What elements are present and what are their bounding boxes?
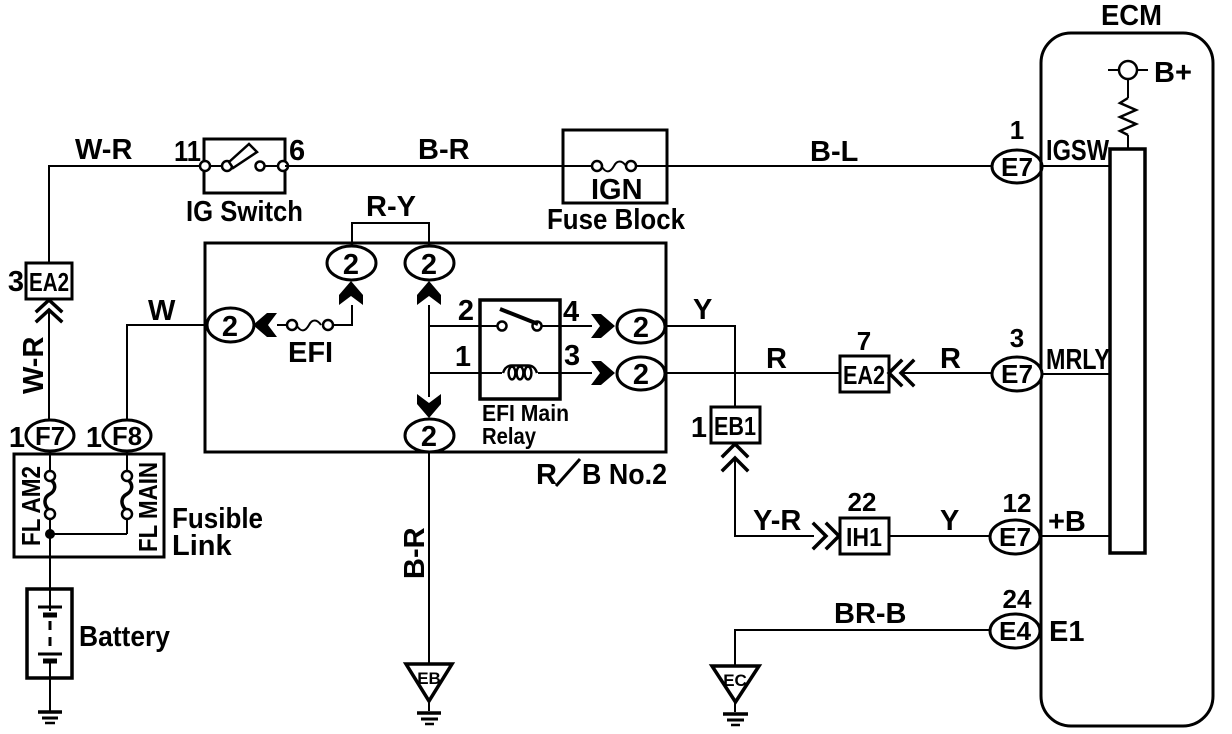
svg-text:R: R xyxy=(536,459,557,491)
label IGN xyxy=(591,174,643,206)
relay coil xyxy=(503,366,560,380)
svg-text:Y-R: Y-R xyxy=(753,505,801,537)
svg-text:3: 3 xyxy=(1010,323,1024,353)
svg-text:Y: Y xyxy=(693,294,712,326)
arrow up into top-left 2 xyxy=(339,281,363,305)
wire Y from right 2 upper to EB1 xyxy=(665,326,735,407)
svg-text:Fuse Block: Fuse Block xyxy=(547,204,686,236)
wire fuse to arrow xyxy=(277,324,287,326)
wire IGSW to ECM block xyxy=(1042,165,1110,167)
svg-text:R: R xyxy=(940,343,961,375)
label Fuse Block xyxy=(547,204,686,236)
arrows up into EA2 left xyxy=(37,300,61,321)
pin 3 EA2 left xyxy=(8,266,24,298)
EFI main relay box xyxy=(480,300,560,399)
relay pin 3 xyxy=(564,340,580,372)
pin 3 MRLY xyxy=(1010,323,1024,353)
label W-R xyxy=(75,134,132,166)
relay pin 4 xyxy=(563,296,579,328)
svg-text:IH1: IH1 xyxy=(846,522,882,552)
svg-text:4: 4 xyxy=(563,296,579,328)
label R right xyxy=(940,343,961,375)
wire to relay pin 2 xyxy=(429,325,498,327)
connector EA2 (left) xyxy=(26,263,72,299)
connector IH1 xyxy=(840,518,889,554)
label R left xyxy=(766,343,787,375)
relay switch contacts xyxy=(498,322,542,331)
connector 2 (right lower) xyxy=(617,357,665,391)
wire EFI fuse to top-left 2 xyxy=(333,305,352,325)
svg-text:1: 1 xyxy=(691,412,707,444)
svg-text:Link: Link xyxy=(172,530,232,562)
svg-text:EA2: EA2 xyxy=(29,267,69,297)
svg-text:B+: B+ xyxy=(1154,57,1192,89)
ECM internal block xyxy=(1110,149,1145,553)
arrow right into right 2 lower xyxy=(591,361,615,385)
svg-text:1: 1 xyxy=(9,422,25,454)
pin 12 xyxy=(1003,488,1032,518)
svg-text:3: 3 xyxy=(8,266,24,298)
svg-text:EC: EC xyxy=(723,671,747,690)
svg-text:B-R: B-R xyxy=(418,134,470,166)
label MRLY xyxy=(1046,344,1110,376)
wire +B to ECM block xyxy=(1040,535,1110,537)
svg-text:E7: E7 xyxy=(1001,359,1033,389)
connector EB1 xyxy=(711,407,760,443)
svg-text:ECM: ECM xyxy=(1101,0,1162,32)
svg-text:3: 3 xyxy=(564,340,580,372)
wire junction to battery xyxy=(50,533,127,535)
label R/B No.2 xyxy=(536,459,667,491)
wire B-R xyxy=(285,165,563,167)
wire battery to ground xyxy=(49,678,51,711)
connector 2 (top left) xyxy=(327,246,376,281)
svg-text:R: R xyxy=(766,343,787,375)
svg-text:E7: E7 xyxy=(999,522,1031,552)
svg-text:F7: F7 xyxy=(35,421,65,451)
wire relay pin 4 to arrow xyxy=(541,325,592,327)
junction node xyxy=(45,529,55,539)
label FL MAIN xyxy=(133,462,163,552)
label EFI Main Relay xyxy=(482,400,569,449)
label Y right xyxy=(940,505,959,537)
label IGSW xyxy=(1046,135,1109,167)
svg-text:12: 12 xyxy=(1003,488,1032,518)
label B-L xyxy=(810,136,858,168)
wire W-R from F7 up xyxy=(48,312,50,420)
fuse IGN xyxy=(563,161,667,171)
arrows left into EA2 xyxy=(889,361,913,385)
pin 1 IGSW xyxy=(1010,115,1024,145)
label Y-R xyxy=(753,505,801,537)
svg-text:B No.2: B No.2 xyxy=(582,459,667,491)
IG switch contacts xyxy=(200,161,288,171)
ground battery xyxy=(38,712,62,723)
svg-text:Relay: Relay xyxy=(482,423,536,449)
connector EA2 (right) xyxy=(840,356,889,392)
ground EB triangle xyxy=(406,664,452,701)
pin 7 EA2 xyxy=(857,326,871,356)
label Y xyxy=(693,294,712,326)
connector 2 (right upper) xyxy=(617,310,665,344)
svg-text:W-R: W-R xyxy=(75,134,132,166)
arrows up into EB1 xyxy=(723,444,747,470)
pin 1 F8 xyxy=(86,422,102,454)
svg-text:W-R: W-R xyxy=(18,337,50,394)
svg-text:FL AM2: FL AM2 xyxy=(16,466,46,546)
connector 2 (top right) xyxy=(405,246,454,281)
svg-text:EFI: EFI xyxy=(288,337,333,369)
svg-text:E1: E1 xyxy=(1049,616,1084,648)
svg-text:2: 2 xyxy=(421,249,437,281)
svg-text:EB1: EB1 xyxy=(714,411,756,441)
R/B No.2 box xyxy=(205,243,666,452)
svg-text:1: 1 xyxy=(455,341,471,373)
connector 2 (bottom) xyxy=(405,419,454,453)
svg-text:F8: F8 xyxy=(112,421,142,451)
svg-text:IGN: IGN xyxy=(591,174,643,206)
wire relay pin 3 to arrow xyxy=(560,372,592,374)
connector F8 xyxy=(103,420,151,451)
wire BR-B from EC to E4 xyxy=(735,630,990,666)
pin 11 xyxy=(174,136,201,168)
label W-R vertical xyxy=(18,337,50,394)
svg-text:E4: E4 xyxy=(999,616,1032,646)
arrows right into IH1 xyxy=(814,524,839,548)
fusible link box xyxy=(14,454,164,557)
svg-text:2: 2 xyxy=(633,359,649,391)
arrow left into left 2 xyxy=(253,313,277,337)
label B-R xyxy=(418,134,470,166)
svg-text:FL MAIN: FL MAIN xyxy=(133,462,163,552)
svg-text:MRLY: MRLY xyxy=(1046,344,1110,376)
wire W-R from EA2 up to IG switch xyxy=(49,166,204,263)
node B+ xyxy=(1108,61,1148,79)
svg-text:2: 2 xyxy=(421,421,437,453)
label B-R vertical xyxy=(399,527,431,579)
svg-text:2: 2 xyxy=(458,295,474,327)
ground EB stem and hatches xyxy=(417,701,441,724)
relay pin 1 xyxy=(455,341,471,373)
ground EC stem and hatches xyxy=(723,702,748,725)
pin 6 xyxy=(289,135,305,167)
label W xyxy=(148,295,176,327)
label +B xyxy=(1048,506,1086,538)
relay switch lever xyxy=(500,309,538,324)
svg-text:B-R: B-R xyxy=(399,527,431,579)
wire R-Y bridge xyxy=(352,223,429,247)
svg-text:Battery: Battery xyxy=(79,621,170,653)
svg-text:1: 1 xyxy=(86,422,102,454)
battery box xyxy=(27,589,72,678)
svg-text:EA2: EA2 xyxy=(843,360,885,390)
label R-Y xyxy=(366,191,416,223)
svg-text:W: W xyxy=(148,295,176,327)
connector E4 xyxy=(990,614,1040,648)
svg-text:R-Y: R-Y xyxy=(366,191,416,223)
connector F7 xyxy=(26,420,74,451)
connector E7 IGSW xyxy=(992,150,1042,183)
svg-text:Y: Y xyxy=(940,505,959,537)
fuse block box xyxy=(563,130,667,203)
svg-text:IGSW: IGSW xyxy=(1046,135,1109,167)
svg-text:2: 2 xyxy=(633,312,649,344)
label BR-B xyxy=(834,598,907,630)
svg-text:1: 1 xyxy=(1010,115,1024,145)
arrow down into bottom 2 xyxy=(417,394,441,418)
connector 2 (left edge) xyxy=(207,308,254,343)
wire to relay pin 1 / coil xyxy=(429,372,502,374)
wire R from right 2 lower to EA2 xyxy=(665,372,840,374)
label Fusible Link xyxy=(172,503,263,562)
svg-text:IG Switch: IG Switch xyxy=(186,196,303,228)
pin 22 IH1 xyxy=(848,487,877,517)
label ECM xyxy=(1101,0,1162,32)
relay pin 2 xyxy=(458,295,474,327)
wire R from E7 MRLY to EA2 xyxy=(902,372,992,374)
svg-text:6: 6 xyxy=(289,135,305,167)
svg-text:11: 11 xyxy=(174,136,201,168)
fuse EFI xyxy=(287,320,333,330)
fusible link FL MAIN xyxy=(122,451,132,534)
IG switch box xyxy=(204,139,285,193)
label FL AM2 xyxy=(16,466,46,546)
battery cells xyxy=(38,589,62,678)
ground EC triangle xyxy=(712,666,759,702)
wire to battery xyxy=(49,534,51,589)
svg-text:B-L: B-L xyxy=(810,136,858,168)
pin 1 EB1 xyxy=(691,412,707,444)
pin 1 F7 xyxy=(9,422,25,454)
svg-text:+B: +B xyxy=(1048,506,1086,538)
label E1 xyxy=(1049,616,1084,648)
svg-text:2: 2 xyxy=(343,249,359,281)
wire Y-R from EB1 down to IH1 xyxy=(735,459,814,536)
label IG Switch xyxy=(186,196,303,228)
fusible link FL AM2 xyxy=(45,451,55,534)
svg-text:7: 7 xyxy=(857,326,871,356)
resistor internal xyxy=(1120,98,1136,135)
arrow up into top-right 2 xyxy=(417,281,441,305)
pin 24 xyxy=(1003,584,1032,614)
svg-text:24: 24 xyxy=(1003,584,1032,614)
wire B-R to ground EB xyxy=(428,452,430,664)
wire MRLY to ECM block xyxy=(1042,373,1110,375)
wire Y from IH1 to E7 xyxy=(889,535,990,537)
svg-text:BR-B: BR-B xyxy=(834,598,907,630)
label B+ xyxy=(1154,57,1192,89)
arrow right into right 2 upper xyxy=(591,314,615,338)
connector E7 +B xyxy=(990,520,1040,554)
wire W from F8 to left 2 xyxy=(127,325,207,420)
label EFI xyxy=(288,337,333,369)
svg-text:2: 2 xyxy=(222,311,238,343)
IG switch lever xyxy=(229,144,257,168)
wire B+ to resistor xyxy=(1127,79,1129,98)
svg-text:EB: EB xyxy=(417,669,441,688)
svg-text:22: 22 xyxy=(848,487,877,517)
connector E7 MRLY xyxy=(992,357,1042,391)
vertical wire through relay branch xyxy=(428,305,430,397)
svg-text:E7: E7 xyxy=(1001,152,1033,182)
label Battery xyxy=(79,621,170,653)
wire B-L xyxy=(667,165,992,167)
wire resistor to block xyxy=(1127,135,1129,149)
ECM outline xyxy=(1041,33,1213,726)
